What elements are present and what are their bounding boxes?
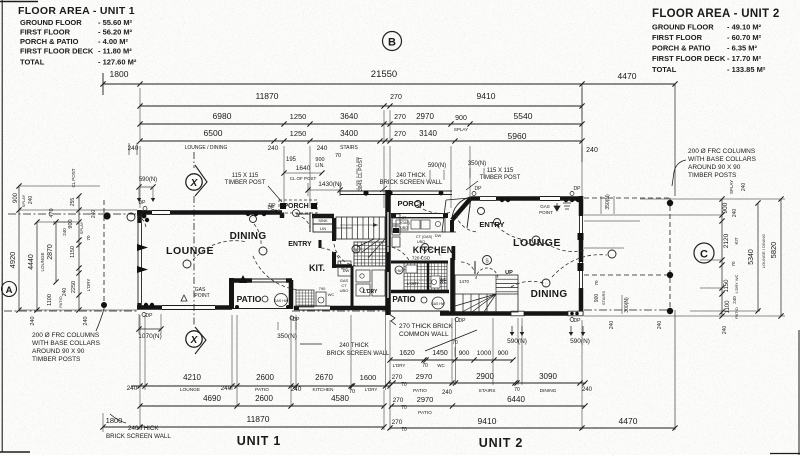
svg-text:DP: DP: [146, 313, 154, 319]
svg-text:240: 240: [28, 196, 34, 205]
svg-text:STAIRS: STAIRS: [601, 291, 606, 305]
svg-text:2120: 2120: [723, 233, 730, 248]
note: 200 FRC columns (top right): [672, 148, 757, 186]
svg-text:70: 70: [594, 280, 599, 286]
carport dashed outline: [584, 198, 673, 314]
svg-text:2870: 2870: [47, 244, 54, 260]
svg-text:240: 240: [317, 145, 328, 152]
svg-text:1000: 1000: [477, 350, 492, 357]
svg-text:70: 70: [401, 382, 407, 388]
unit2 kitchen window wall: [391, 214, 448, 218]
svg-text:2970: 2970: [416, 112, 434, 121]
svg-text:PATIO: PATIO: [734, 307, 739, 318]
svg-text:6500: 6500: [204, 128, 223, 138]
svg-text:11870: 11870: [246, 414, 269, 424]
svg-text:5820: 5820: [769, 242, 778, 259]
svg-text:900: 900: [455, 115, 467, 122]
svg-text:1250: 1250: [290, 129, 307, 138]
svg-text:POINT: POINT: [194, 293, 209, 299]
unit2 porch screen wall: [340, 190, 452, 195]
svg-text:70: 70: [401, 427, 407, 433]
svg-text:70: 70: [401, 405, 407, 411]
labels 590(N) / 350(N) near unit2 porch: [428, 161, 486, 180]
svg-text:PORCH & PATIO: PORCH & PATIO: [652, 44, 711, 53]
svg-text:270: 270: [393, 397, 404, 404]
svg-text:LOUNGE / DINING: LOUNGE / DINING: [761, 234, 766, 268]
unit1 interior wall kitchen west: [320, 218, 341, 268]
svg-text:240: 240: [586, 147, 598, 154]
svg-text:1620: 1620: [399, 350, 415, 357]
svg-text:4690: 4690: [203, 394, 221, 403]
svg-text:UNIT 1: UNIT 1: [237, 434, 281, 448]
svg-text:B: B: [388, 37, 396, 49]
svg-text:LOUNGE: LOUNGE: [166, 245, 214, 257]
svg-text:5960: 5960: [508, 131, 527, 141]
svg-text:UBO: UBO: [340, 288, 349, 293]
svg-text:270: 270: [394, 131, 406, 138]
sub-dimension labels below row 4: [128, 143, 359, 196]
svg-text:DP: DP: [475, 186, 483, 192]
dimension row 6980/1250/3640/270/2970/900/5540: [137, 111, 584, 132]
unit2 ldry-wc tiled area: [404, 263, 447, 290]
svg-text:790: 790: [319, 286, 326, 291]
svg-text:- 49.10 M²: - 49.10 M²: [727, 23, 762, 32]
svg-text:240 THICK: 240 THICK: [128, 425, 159, 432]
label 3845 CL POST (rotated): [357, 157, 364, 191]
svg-text:TOTAL: TOTAL: [652, 65, 677, 74]
svg-text:- 6.35 M²: - 6.35 M²: [727, 44, 758, 53]
unit2 ceiling lights: [415, 201, 551, 288]
svg-text:L'DRY: L'DRY: [365, 387, 378, 392]
svg-text:1640: 1640: [296, 165, 311, 172]
svg-text:KIT.: KIT.: [309, 263, 325, 273]
svg-text:DP: DP: [139, 200, 147, 206]
svg-text:KIT: KIT: [734, 237, 739, 244]
svg-text:9410: 9410: [477, 91, 496, 101]
svg-text:SPLAY: SPLAY: [79, 221, 84, 234]
section marker B: [383, 32, 402, 51]
svg-text:1100: 1100: [725, 300, 731, 314]
svg-text:2970: 2970: [417, 395, 434, 404]
svg-text:FLOOR AREA - UNIT 2: FLOOR AREA - UNIT 2: [652, 8, 780, 20]
svg-text:3400: 3400: [340, 129, 358, 138]
unit1 bottom wall with window: [137, 303, 232, 310]
svg-text:1070(N): 1070(N): [138, 333, 161, 340]
svg-text:4580: 4580: [331, 394, 349, 403]
svg-text:200 Ø FRC COLUMNS: 200 Ø FRC COLUMNS: [688, 148, 756, 155]
svg-text:DP: DP: [574, 186, 582, 192]
svg-text:FIRST FLOOR DECK: FIRST FLOOR DECK: [652, 54, 726, 63]
svg-text:KITCHEN: KITCHEN: [312, 387, 334, 393]
svg-text:240: 240: [62, 288, 68, 297]
svg-text:70: 70: [422, 363, 428, 369]
unit1 ldry-wc fixtures: [296, 286, 334, 307]
svg-text:4470: 4470: [618, 71, 637, 81]
svg-text:DP: DP: [459, 318, 467, 324]
svg-text:LOUNGE: LOUNGE: [180, 387, 200, 393]
svg-text:240: 240: [582, 387, 593, 393]
extension lines from plan to top dims: [140, 88, 582, 208]
unit2 door swing arcs: [418, 197, 585, 287]
svg-text:1800: 1800: [110, 69, 129, 79]
bottom dim row: 4690/2600/4580 + 270/2970: [137, 394, 587, 416]
svg-text:240: 240: [62, 228, 67, 236]
svg-text:5540: 5540: [514, 111, 533, 121]
svg-text:2250: 2250: [71, 281, 77, 293]
svg-text:4470: 4470: [619, 416, 638, 426]
svg-text:2900: 2900: [476, 372, 494, 381]
svg-text:240 THICK: 240 THICK: [396, 173, 426, 179]
svg-text:CL OF POST: CL OF POST: [290, 176, 317, 181]
svg-text:STAIRS: STAIRS: [340, 145, 358, 151]
left column dashed line with posts: [101, 200, 111, 312]
svg-text:9410: 9410: [478, 416, 497, 426]
svg-text:DINING: DINING: [540, 388, 557, 394]
svg-text:LIN.: LIN.: [315, 163, 324, 169]
svg-text:BRICK SCREEN WALL: BRICK SCREEN WALL: [106, 433, 171, 440]
gas point unit1: [181, 287, 210, 301]
svg-text:ENTRY: ENTRY: [288, 241, 312, 248]
svg-text:3140: 3140: [419, 129, 437, 138]
svg-text:TIMBER POSTS: TIMBER POSTS: [32, 356, 81, 363]
svg-text:240 THICK: 240 THICK: [339, 343, 369, 349]
carport ticks off east wall: [584, 194, 663, 329]
svg-text:DW: DW: [343, 268, 350, 273]
svg-text:6440: 6440: [507, 395, 525, 404]
svg-text:WITH BASE COLLARS: WITH BASE COLLARS: [32, 340, 101, 347]
svg-text:1450: 1450: [432, 350, 448, 357]
svg-text:590(N): 590(N): [570, 338, 590, 345]
svg-text:L'DRY WC: L'DRY WC: [734, 274, 739, 293]
svg-text:PATIO: PATIO: [392, 295, 415, 304]
svg-text:LOUNGE: LOUNGE: [40, 252, 45, 271]
unit2 patio wall & floor: [388, 292, 449, 312]
unit1 patio west wall: [229, 278, 234, 309]
svg-text:WC: WC: [440, 277, 447, 282]
note: 270 thick brick common wall: [389, 314, 453, 338]
svg-text:2600: 2600: [256, 373, 274, 382]
svg-text:300(N): 300(N): [624, 297, 630, 313]
svg-text:240: 240: [83, 316, 89, 325]
svg-text:WITH BASE COLLARS: WITH BASE COLLARS: [688, 156, 757, 163]
unit2 east wall with windows: [578, 196, 584, 314]
svg-text:240: 240: [291, 386, 302, 393]
svg-text:PATIO: PATIO: [255, 387, 269, 393]
svg-text:240: 240: [732, 296, 737, 304]
svg-text:70: 70: [86, 235, 91, 241]
left dim chain 470/240/900/1150/2250/1100: [30, 193, 97, 325]
svg-text:590(N): 590(N): [507, 338, 527, 345]
svg-text:3845 CL POST: 3845 CL POST: [358, 157, 364, 191]
svg-text:TIMBER POSTS: TIMBER POSTS: [688, 172, 737, 179]
svg-text:240: 240: [609, 321, 615, 330]
svg-text:PATIO: PATIO: [413, 388, 427, 394]
gas point unit2 + earth symbol: [539, 200, 572, 215]
svg-text:DINING: DINING: [531, 289, 568, 300]
svg-text:240: 240: [657, 321, 663, 330]
svg-text:240: 240: [722, 326, 728, 335]
carport light with switch line: [552, 250, 616, 277]
svg-text:KITCHEN: KITCHEN: [413, 245, 454, 255]
svg-text:115 X 115: 115 X 115: [487, 168, 514, 174]
svg-text:FIRST FLOOR: FIRST FLOOR: [652, 33, 703, 42]
svg-text:CL POST: CL POST: [71, 168, 76, 187]
svg-text:1150: 1150: [70, 246, 76, 258]
svg-text:UBO: UBO: [400, 226, 408, 230]
section marker C: [694, 243, 714, 263]
bottom labels 1070(N) and 350(N): [136, 314, 297, 340]
svg-text:115 X 115: 115 X 115: [232, 173, 259, 179]
dimension row 6500/1250/3400/270/3140/5960: [137, 84, 675, 430]
unit1 wall corner posts/dp: [127, 200, 300, 323]
svg-text:350(N): 350(N): [468, 161, 486, 167]
svg-text:GAS: GAS: [540, 204, 550, 209]
bottom extension lines: [103, 315, 582, 432]
section marker A: [2, 282, 17, 297]
svg-text:240: 240: [442, 390, 453, 396]
svg-text:900: 900: [594, 294, 600, 303]
svg-text:4210: 4210: [183, 373, 201, 382]
svg-text:BRICK SCREEN WALL: BRICK SCREEN WALL: [380, 180, 443, 186]
note: 240 thick brick screen wall (right): [380, 173, 443, 192]
svg-text:L'DRY: L'DRY: [407, 281, 419, 286]
svg-text:350(N): 350(N): [277, 333, 297, 340]
svg-text:1800: 1800: [106, 416, 123, 425]
unit1 stairs: [336, 217, 385, 258]
svg-text:1250: 1250: [290, 112, 307, 121]
svg-text:240: 240: [732, 209, 738, 218]
left dash-dot guide lines: [4, 214, 390, 311]
svg-text:L'DRY: L'DRY: [363, 289, 378, 295]
svg-text:900: 900: [722, 202, 729, 213]
unit1 patio east wall: [289, 280, 294, 309]
unit2 bottom wall: [440, 311, 584, 316]
unit2 stair door + arc: [440, 256, 498, 285]
svg-text:240: 240: [221, 385, 232, 392]
table: floor area unit 2: [652, 8, 780, 74]
dimension row 1800 / 21550 / 4470 (top): [100, 69, 677, 95]
right dim 5820: [769, 196, 784, 318]
unit1 east common wall (270 double brick): [385, 190, 391, 315]
svg-text:POINT: POINT: [539, 210, 553, 215]
svg-text:270: 270: [392, 419, 403, 426]
svg-text:240: 240: [127, 385, 138, 392]
note: 240 thick brick screen wall (below patio): [300, 330, 477, 357]
bottom dim row unit1: 240/4210/240/2600/240/2670/70/1600: [127, 373, 393, 395]
unit1 kitchen-ldry bottom wall with window: [294, 306, 386, 310]
svg-text:900: 900: [498, 350, 509, 357]
svg-text:240: 240: [741, 183, 747, 192]
svg-text:DW: DW: [435, 233, 442, 238]
svg-text:900: 900: [68, 219, 74, 228]
unit2 top (north) wall with windows: [471, 197, 583, 203]
svg-text:LOUNGE / DINING: LOUNGE / DINING: [185, 145, 228, 151]
svg-text:PORCH & PATIO: PORCH & PATIO: [20, 37, 79, 46]
svg-text:11870: 11870: [255, 91, 278, 101]
svg-text:GAS HW: GAS HW: [431, 302, 446, 306]
unit2 splay entry wall: [442, 198, 471, 232]
dimension row 11870 / 270 / 9410: [137, 91, 584, 109]
svg-text:200 Ø FRC COLUMNS: 200 Ø FRC COLUMNS: [32, 332, 100, 339]
svg-text:70: 70: [335, 153, 341, 159]
unit2 fixtures along common wall: [392, 214, 410, 274]
svg-text:AROUND 90 X 90: AROUND 90 X 90: [32, 348, 85, 355]
svg-text:PORCH: PORCH: [283, 203, 308, 210]
svg-text:SPLAY: SPLAY: [21, 194, 26, 207]
svg-text:4440: 4440: [28, 254, 35, 270]
svg-text:- 17.70 M²: - 17.70 M²: [727, 54, 762, 63]
svg-text:- 133.85 M²: - 133.85 M²: [727, 65, 766, 74]
left dim 2870: [47, 219, 59, 284]
bottom dim row unit2 small: 1620/1450/900/1000/900: [387, 340, 515, 369]
svg-text:1600: 1600: [360, 373, 377, 382]
unit1 patio open edge: [233, 305, 292, 309]
gas hw unit1: [262, 294, 289, 307]
svg-text:C: C: [700, 249, 708, 261]
svg-text:900: 900: [13, 192, 19, 203]
svg-text:255: 255: [70, 198, 76, 207]
unit2 kitchen bench along top: [392, 218, 445, 244]
svg-text:L'DRY: L'DRY: [86, 279, 91, 292]
svg-text:270: 270: [394, 114, 406, 121]
svg-text:3640: 3640: [340, 112, 358, 121]
svg-text:470: 470: [49, 208, 55, 217]
svg-text:1150: 1150: [724, 279, 730, 293]
svg-text:TIMBER POST: TIMBER POST: [225, 180, 266, 186]
svg-text:CT (GAS): CT (GAS): [416, 235, 433, 239]
section marker X bottom with pointer: [186, 327, 206, 354]
right vertical dim chain 900/240/2120/70/1150/240/1100: [719, 196, 739, 334]
svg-text:(GAS): (GAS): [400, 221, 410, 225]
unit1 top wall: [137, 211, 282, 217]
svg-text:590(N): 590(N): [428, 163, 446, 169]
svg-text:- 11.80 M²: - 11.80 M²: [98, 47, 132, 56]
unit1 entry/porch walls: [282, 212, 334, 232]
unit2 stairs: [455, 270, 518, 312]
bottom dim row unit2: 270/2970/240/2900/70/3090/240: [385, 372, 592, 396]
svg-text:- 4.00 M²: - 4.00 M²: [98, 37, 129, 46]
note: 115x115 timber post (left): [225, 173, 282, 202]
right dim extension lines: [584, 180, 785, 316]
svg-text:UNIT 2: UNIT 2: [479, 436, 523, 450]
svg-text:21550: 21550: [371, 69, 397, 80]
svg-text:590(N): 590(N): [139, 177, 157, 183]
left dim 4440 lounge: [28, 219, 70, 312]
svg-text:FIRST FLOOR: FIRST FLOOR: [20, 28, 71, 37]
svg-text:STAIRS: STAIRS: [479, 388, 496, 394]
note: 115x115 timber post (right): [466, 168, 521, 190]
svg-text:70: 70: [349, 389, 355, 395]
svg-text:DP: DP: [574, 318, 582, 324]
svg-text:SINK: SINK: [318, 218, 328, 223]
svg-text:PATIO: PATIO: [237, 294, 262, 304]
svg-text:GROUND FLOOR: GROUND FLOOR: [20, 18, 82, 27]
left dim top splay labels: [13, 168, 100, 210]
svg-text:SPLAY: SPLAY: [454, 127, 468, 132]
svg-text:GROUND FLOOR: GROUND FLOOR: [652, 23, 714, 32]
svg-text:BRICK SCREEN WALL: BRICK SCREEN WALL: [327, 351, 390, 357]
svg-text:5340: 5340: [748, 249, 755, 265]
unit1 ceiling lights: [183, 216, 360, 269]
section line X-X (dash-dot vertical): [193, 152, 195, 168]
svg-text:4920: 4920: [8, 252, 17, 269]
svg-text:A: A: [6, 285, 13, 296]
unit1 lounge-patio wall with door: [229, 275, 292, 283]
svg-text:70: 70: [452, 340, 458, 346]
svg-text:GAS HW: GAS HW: [274, 299, 289, 303]
svg-text:WC: WC: [437, 363, 445, 368]
section marker X top with pointer: [186, 165, 207, 196]
svg-text:X: X: [190, 178, 199, 189]
svg-text:UP: UP: [505, 270, 513, 276]
labels 590(N) near unit1 top-left: [136, 177, 157, 202]
table: floor area unit 1: [18, 5, 137, 67]
svg-text:FLOOR AREA - UNIT 1: FLOOR AREA - UNIT 1: [18, 5, 135, 17]
svg-text:TIMBER POST: TIMBER POST: [480, 175, 521, 181]
labels 590(N) below unit2: [455, 318, 590, 346]
unit1 interior wall kitchen-ldry: [334, 266, 352, 308]
svg-text:LIN: LIN: [320, 226, 326, 231]
svg-text:3090: 3090: [539, 372, 557, 381]
unit2 dp labels: [472, 186, 581, 196]
svg-text:2600: 2600: [255, 394, 273, 403]
svg-text:1470: 1470: [459, 279, 470, 284]
svg-text:900: 900: [459, 350, 470, 357]
svg-text:- 127.60 M²: - 127.60 M²: [98, 58, 137, 67]
svg-text:2970: 2970: [416, 372, 433, 381]
note: 200 FRC columns (bottom left): [32, 309, 104, 363]
unit2 kitchen-ldry wall 720 csd: [391, 256, 448, 263]
unit2 wc-stair wall: [453, 246, 454, 314]
svg-text:PATIO: PATIO: [58, 296, 63, 307]
right dim 5340 lounge/dining: [748, 200, 766, 313]
unit1 kitchen fixtures (bench, sink, appliances): [313, 216, 386, 296]
svg-text:2670: 2670: [315, 373, 333, 382]
svg-text:COMMON WALL: COMMON WALL: [399, 331, 449, 338]
unit1 porch dashed outline + posts: [268, 200, 317, 217]
svg-text:70: 70: [731, 261, 736, 267]
svg-text:SPLAY: SPLAY: [729, 180, 734, 194]
svg-text:X: X: [190, 335, 199, 346]
unit1 left wall with window band and sill wedges: [131, 210, 148, 308]
svg-text:- 56.20 M²: - 56.20 M²: [98, 28, 133, 37]
svg-text:PATIO: PATIO: [418, 410, 432, 416]
svg-text:70: 70: [514, 387, 520, 393]
svg-text:350(N): 350(N): [605, 194, 611, 210]
svg-text:HW: HW: [396, 269, 401, 273]
svg-text:270 THICK BRICK: 270 THICK BRICK: [399, 323, 453, 330]
svg-text:- 55.60 M²: - 55.60 M²: [98, 18, 133, 27]
svg-text:240: 240: [268, 145, 279, 152]
svg-text:195: 195: [286, 157, 297, 163]
left dim 4920: [8, 207, 137, 312]
svg-text:FIRST FLOOR DECK: FIRST FLOOR DECK: [20, 47, 94, 56]
svg-text:AROUND 90 X 90: AROUND 90 X 90: [688, 164, 741, 171]
svg-text:1430(N): 1430(N): [318, 181, 341, 188]
note: 240 thick brick screen wall (bottom): [106, 414, 171, 440]
svg-text:L'DRY: L'DRY: [393, 363, 406, 368]
bottom dim row: 1800/11870 + 270/9410/4470: [100, 414, 677, 433]
unit1 door swing arcs: [193, 216, 410, 290]
svg-text:WC: WC: [328, 292, 335, 297]
svg-text:240: 240: [30, 316, 36, 325]
svg-text:- 60.70 M²: - 60.70 M²: [727, 33, 762, 42]
svg-text:270: 270: [390, 94, 402, 101]
svg-text:270: 270: [392, 374, 403, 381]
svg-text:DINING: DINING: [230, 231, 267, 242]
svg-text:1100: 1100: [47, 294, 53, 306]
svg-text:6980: 6980: [213, 111, 232, 121]
